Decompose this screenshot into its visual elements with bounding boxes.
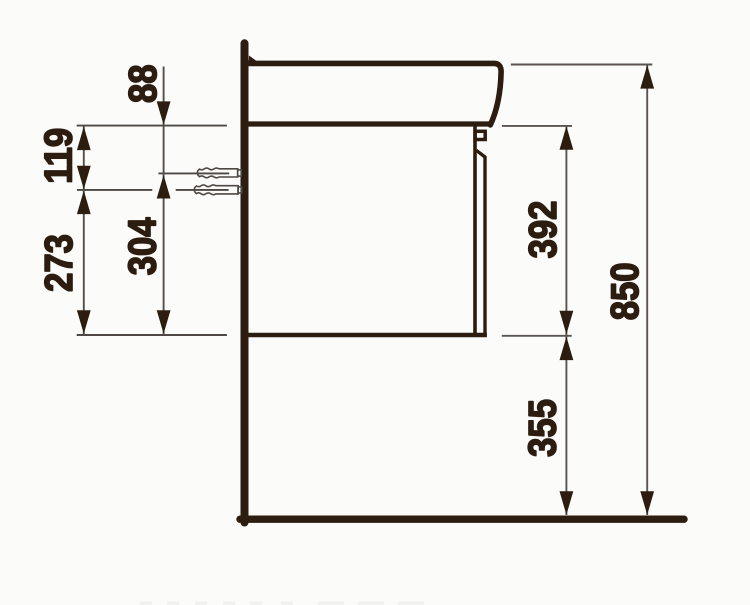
arrow 273 top: [77, 191, 91, 215]
arrow 119 top: [77, 127, 91, 151]
arrow 304 bottom: [157, 310, 171, 334]
arrow 392 top: [560, 126, 574, 150]
cabinet carcass right edge: [473, 127, 477, 335]
faint cropped marks at bottom edge: [140, 602, 424, 605]
svg-text:119: 119: [37, 128, 80, 184]
svg-text:304: 304: [121, 217, 164, 275]
cabinet door top rail: [475, 131, 485, 139]
extension line right at basin top (850): [511, 64, 653, 66]
extension line right at basin bottom (392): [502, 125, 572, 127]
floor: [240, 516, 684, 523]
cabinet bottom: [249, 333, 487, 338]
svg-text:850: 850: [603, 263, 646, 321]
upper plug screw line: [158, 172, 229, 174]
dimension line 392/355: [565, 126, 567, 515]
washbasin rim wedge at wall: [249, 56, 257, 62]
extension line right at cabinet bottom (392/355): [502, 335, 572, 337]
svg-text:88: 88: [122, 64, 165, 103]
arrow 119 bottom: [77, 166, 91, 190]
extension line left at basin bottom level: [77, 125, 227, 127]
washbasin bottom line: [249, 121, 491, 126]
extension line left at cabinet bottom level: [77, 334, 227, 336]
extension line left at lower plug level: [77, 189, 229, 191]
wall: [241, 43, 249, 522]
lower wall plug: [194, 185, 241, 195]
dimension line 119/273: [83, 126, 85, 334]
svg-text:392: 392: [521, 201, 564, 259]
arrow 392 bottom: [560, 311, 574, 335]
upper wall plug: [197, 168, 241, 178]
arrow 273 bottom: [77, 310, 91, 334]
arrow 304 top: [157, 175, 171, 199]
arrow 88 bottom: [157, 101, 171, 125]
arrow 850 bottom: [640, 491, 654, 515]
arrow 850 top: [640, 65, 654, 89]
dimension line 850: [646, 65, 648, 515]
arrow 355 top: [560, 337, 574, 361]
arrow 355 bottom: [560, 491, 574, 515]
cabinet door front with chamfer: [476, 150, 485, 335]
washbasin top and right profile: [249, 63, 502, 125]
svg-text:273: 273: [37, 234, 80, 292]
dimension line 88/304: [163, 67, 165, 335]
svg-text:355: 355: [521, 399, 564, 457]
